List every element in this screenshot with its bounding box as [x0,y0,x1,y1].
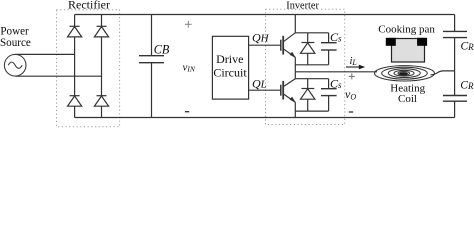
svg-text:CB: CB [154,43,170,57]
svg-text:Circuit: Circuit [213,66,247,80]
wire: source top lead to bridge left leg [15,53,74,55]
cooking pan [386,38,427,62]
svg-text:Coil: Coil [398,93,417,105]
drive circuit box U1 [212,36,248,99]
wire: QL snubber bottom horizontal [295,110,328,112]
wire: bridge right leg [101,15,103,118]
wire: top DC rail [75,14,455,16]
wire: QL snubber top horizontal [295,78,328,80]
wire: QH gate drive [249,44,281,46]
diode D3 (bridge bottom-left) [68,96,82,107]
svg-text:Cooking pan: Cooking pan [378,24,435,36]
wire: bridge left leg [74,15,76,118]
current arrow iL [346,65,365,70]
wire: QL collector to midpoint node [294,72,296,79]
svg-text:Inverter: Inverter [286,0,319,11]
rectifier dashed box [57,10,120,127]
svg-text:Rectifier: Rectifier [68,0,110,12]
capacitor CB [139,15,164,118]
svg-text:CR: CR [461,40,474,52]
wire: midpoint node to heating coil [295,71,377,73]
svg-text:Source: Source [0,37,31,49]
AC source V1 [4,54,26,76]
capacitor Cs (QH snubber) [321,33,337,65]
inverter dashed box [266,9,345,124]
wire: QL gate drive [249,89,281,91]
wire: bottom DC rail [75,117,455,119]
label - (vO) [349,111,353,113]
diode D1 (bridge top-left) [68,26,82,37]
label + (vIN) [185,21,192,28]
wire: QL emitter to bottom rail [294,102,296,117]
wire: QH emitter down to midpoint node [294,57,296,71]
diode D4 (bridge bottom-right) [94,96,108,107]
diode D6 (QL antiparallel) [301,79,315,111]
svg-text:QL: QL [252,77,267,91]
capacitor Cs (QL snubber) [321,79,337,111]
diode D2 (bridge top-right) [94,26,108,37]
heating coil L1 [375,66,435,81]
wire: source bottom lead to bridge right leg [15,75,101,77]
svg-text:Power: Power [0,26,29,38]
svg-text:QH: QH [252,31,270,45]
capacitor CR (top) [443,31,467,71]
svg-text:CR: CR [460,80,474,92]
svg-text:Drive: Drive [216,52,243,66]
wire: coil to resonant cap node [431,71,455,75]
transistor QH (IGBT) [281,33,296,58]
label + (vO) [349,73,355,79]
label - (vIN) [185,111,189,113]
wire: QH snubber top horizontal [295,32,328,34]
diode D5 (QH antiparallel) [301,33,315,65]
wire: right vertical from top rail [454,15,456,32]
svg-text:iL: iL [350,56,358,67]
transistor QL (IGBT) [281,79,296,103]
wire: QH snubber bottom horizontal [295,64,328,66]
wire: QH collector to top rail [294,15,296,33]
capacitor CR (bottom) [443,71,467,118]
